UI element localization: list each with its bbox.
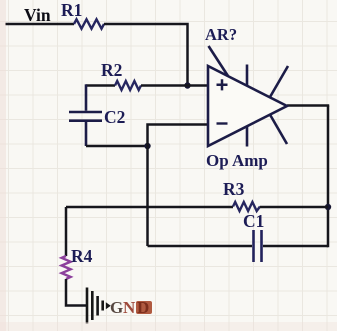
wire C2 bottom to minus node [86, 145, 148, 148]
svg-text:Vin: Vin [24, 5, 51, 25]
svg-text:R2: R2 [101, 60, 122, 80]
wire output right rail [327, 106, 330, 248]
wire minus node down to C1 rail [146, 146, 149, 246]
svg-text:G: G [110, 298, 123, 317]
op-amp bottom power pin [246, 126, 249, 146]
svg-text:R3: R3 [223, 179, 245, 199]
op-amp plus input symbol [217, 79, 228, 90]
resistor R1 [74, 19, 104, 28]
op-amp pin stub toward AR? [209, 46, 229, 76]
wire R3 rail left segment [66, 206, 233, 209]
svg-text:R1: R1 [61, 0, 82, 20]
svg-text:C2: C2 [104, 107, 125, 127]
ground GND arrow [106, 302, 111, 309]
capacitor C1 [254, 230, 262, 262]
wire minus node to op-amp minus input [148, 125, 209, 147]
svg-text:N: N [123, 298, 136, 317]
wire R2 to op-amp plus input [141, 84, 208, 87]
svg-text:R4: R4 [71, 246, 93, 266]
wire R3 to output rail [260, 206, 328, 209]
svg-text:AR?: AR? [205, 25, 237, 44]
op-amp top power pin [246, 65, 249, 86]
wire R3 rail to R4 [65, 207, 68, 256]
wire C1 right to output rail [263, 245, 328, 248]
svg-text:D: D [137, 298, 149, 317]
wire Vin input [5, 23, 74, 26]
op-amp bottom-right pin [270, 115, 287, 144]
resistor R3 [233, 202, 260, 211]
svg-text:C1: C1 [243, 211, 264, 231]
wire R1 to plus-input node [104, 24, 188, 86]
wire op-amp output [287, 104, 329, 107]
svg-text:Op Amp: Op Amp [206, 151, 268, 170]
wire C1 rail left [148, 245, 253, 248]
node junction dot (R3/output rail) [325, 204, 331, 210]
node junction dot (R1/R2/+input) [184, 82, 190, 88]
op-amp minus input symbol [217, 122, 228, 124]
node junction dot (C2/minus input/feedback) [144, 143, 150, 149]
ground GND symbol bars [87, 288, 103, 324]
label GND [110, 298, 152, 317]
wire R4 to ground [66, 279, 86, 306]
wire C2 corner to R2 [86, 84, 115, 87]
op-amp top-right pin [270, 66, 288, 97]
capacitor C2 [69, 84, 102, 146]
op-amp U1 triangle [208, 66, 287, 146]
resistor R4 [62, 256, 71, 279]
resistor R2 [115, 81, 141, 90]
